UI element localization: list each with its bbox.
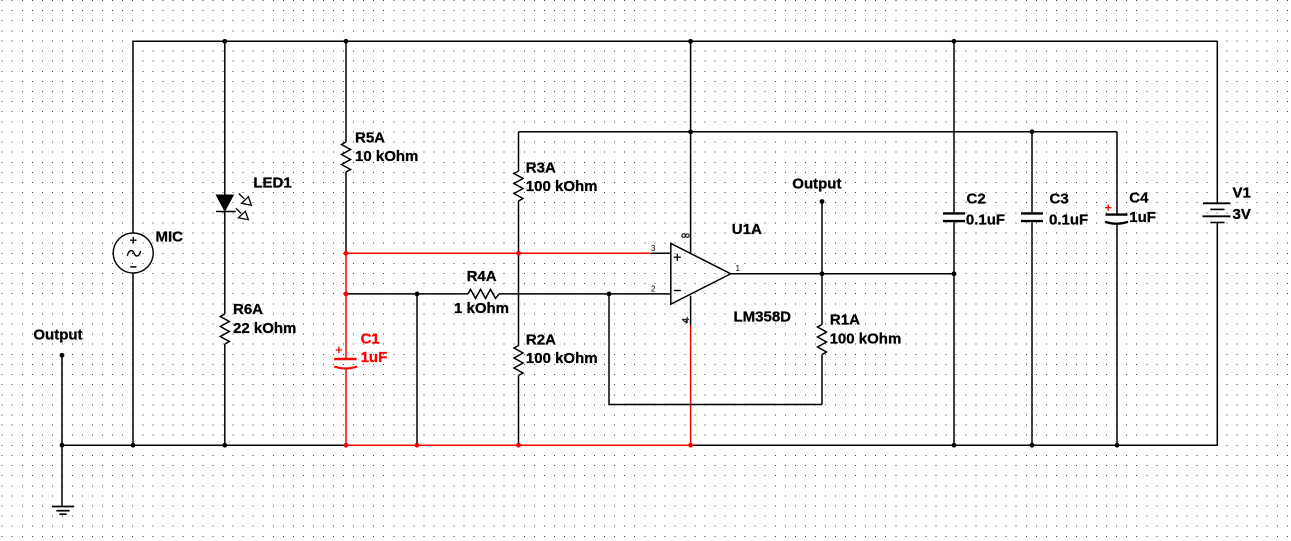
wire: R1A bottom lead [821,355,823,405]
wire: C4 bottom lead [1116,223,1118,445]
wire: R5A top lead [345,41,347,142]
svg-text:100 kOhm: 100 kOhm [526,350,598,367]
junction: LED1 branch on top bus [222,39,227,44]
svg-text:1: 1 [736,264,741,273]
wire (red): ground bus middle [346,444,691,446]
wire (red): C1 bottom plate to ground bus [345,368,347,445]
svg-text:LM358D: LM358D [734,308,792,325]
wire (red): op-amp pin 4 to ground bus [690,325,692,445]
junction: R5A branch on top bus [344,39,349,44]
node: Output terminal (top) [820,199,825,204]
wire: C2 bottom lead [953,222,955,445]
pin number 8 (rotated) [682,234,689,238]
wire: ground bus left (black) [62,444,346,446]
wire: ground stem [61,445,63,506]
svg-text:2: 2 [651,284,656,293]
wire: junction to ground bus (below R4A left node) [416,294,418,445]
wire: MIC bottom lead to ground bus [132,273,134,445]
svg-text:R4A: R4A [467,268,497,285]
svg-text:100 kOhm: 100 kOhm [526,178,598,195]
wire: MIC top lead [132,41,134,233]
svg-text:R2A: R2A [526,332,556,349]
wire (red): non-inverting input net to op-amp pin 3 [346,252,651,254]
wire: top V+ bus (battery + rail) [133,40,1217,42]
svg-text:R5A: R5A [355,130,385,147]
capacitor C4 (polarized) [1105,205,1128,224]
junction: R6A lead on ground bus [222,443,227,448]
resistor R4A [468,289,499,298]
wire: V1 top lead [1216,41,1218,203]
wire: ground bus right and V1 bottom lead [691,223,1218,446]
wire: op-amp pin 4 stub [690,296,692,325]
junction: pin 8 lead on second bus [688,129,693,134]
junction: C2 lead on ground bus [952,443,957,448]
svg-text:3: 3 [651,244,656,253]
junction: R4A left node to ground branch [415,292,420,297]
junction: C2 branch on top bus [952,39,957,44]
svg-text:Output: Output [792,176,841,193]
svg-text:Output: Output [33,326,82,343]
junction: output wire to R1A/Output branch [820,271,825,276]
junction (red): C1 lead on ground bus [344,443,349,448]
ground symbol [52,507,74,515]
resistor R1A [818,325,827,355]
junction: pin 8 lead on top bus [688,39,693,44]
svg-text:0.1uF: 0.1uF [1049,211,1088,228]
junction (red): x417 branch on ground bus [415,443,420,448]
wire: op-amp output (pin 1) to C2 branch [731,273,954,275]
junction: MIC lead on ground bus [131,443,136,448]
junction: C4 lead on ground bus [1115,443,1120,448]
wire: LED1 top lead [224,41,226,195]
wire: LED1 cathode to R6A [224,212,226,315]
wire: R4A right lead to op-amp pin 2 [499,293,671,295]
op-amp U1A [671,243,731,304]
junction: inverting input feedback node [607,292,612,297]
svg-text:1uF: 1uF [361,349,388,366]
wire: Output node down through output wire to R1A top [821,202,823,325]
resistor R3A [514,171,523,201]
wire: feedback from inverting input node to R1A bottom [609,294,822,405]
wire (red): node A down to C1 top plate [345,253,347,358]
svg-text:10 kOhm: 10 kOhm [355,148,418,165]
wire: op-amp pin 3 stub [651,252,671,254]
junction (red): pin 4 lead on ground bus [688,443,693,448]
capacitor C1 (red, polarized) [334,347,357,369]
svg-text:22 kOhm: 22 kOhm [233,320,296,337]
resistor R2A [514,346,523,376]
svg-text:LED1: LED1 [253,174,291,191]
wire: R4A left lead [346,293,468,295]
svg-text:R3A: R3A [526,160,556,177]
capacitor C3 [1021,213,1043,221]
svg-text:100 kOhm: 100 kOhm [830,330,902,347]
junction (red): node A on + input net [344,251,349,256]
svg-text:V1: V1 [1233,185,1251,202]
junction: C3 branch on second bus [1030,129,1035,134]
wire: R3A/R2A divider vertical [518,132,520,445]
wire: C2 top lead [953,41,955,212]
wire: op-amp pin 8 supply lead [690,41,692,252]
svg-text:C3: C3 [1050,190,1069,207]
svg-text:1 kOhm: 1 kOhm [454,300,509,317]
svg-text:1uF: 1uF [1129,209,1156,226]
wire: C3 bottom lead [1031,222,1033,445]
diode LED1 [216,194,251,220]
wire: second V+ bus (R3A top to C3/C4 tops) [519,131,1118,133]
wire: C4 top lead [1116,132,1118,214]
junction (red): R4A left node on red branch [344,292,349,297]
svg-text:R6A: R6A [233,301,263,318]
microphone source MIC [113,233,153,273]
svg-text:3V: 3V [1233,206,1251,223]
junction: ground stem on ground bus [60,443,65,448]
svg-text:U1A: U1A [732,221,762,238]
junction (red): R3A/R2A divider tap on + input net [516,251,521,256]
junction: C3 lead on ground bus [1030,443,1035,448]
svg-text:0.1uF: 0.1uF [966,211,1005,228]
svg-text:C4: C4 [1129,189,1149,206]
junction: output wire end at C2 branch [952,271,957,276]
capacitor C2 [943,213,965,221]
svg-text:C1: C1 [361,331,380,348]
resistor R5A [342,142,351,172]
node: Output terminal (left) [60,353,65,358]
svg-text:C2: C2 [967,190,986,207]
junction (red): R2A lead on ground bus [516,443,521,448]
wire: R6A bottom lead to ground bus [224,344,226,445]
resistor R6A [220,314,229,344]
svg-text:R1A: R1A [830,312,860,329]
wire: R5A bottom lead to node A [345,172,347,253]
wire: C3 top lead [1031,132,1033,213]
wire: left Output node to ground bus [61,355,63,445]
svg-text:MIC: MIC [156,228,184,245]
pin number 4 (rotated) [682,317,689,323]
battery V1 [1203,203,1231,222]
